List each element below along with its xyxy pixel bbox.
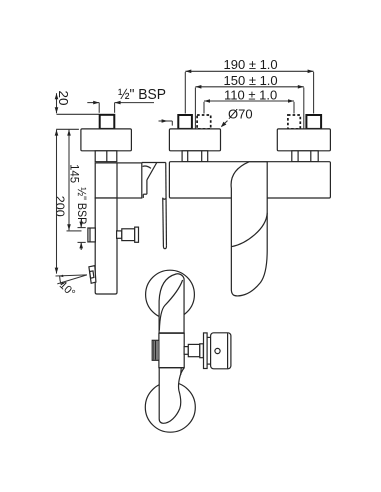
valve block (bottom view) — [159, 333, 184, 367]
handle collar (bottom view) — [204, 333, 208, 369]
label 1/2 BSP top with nut dimension — [87, 87, 166, 113]
mixer body bar (front) — [169, 162, 330, 198]
dimension 150 +/- 1.0 — [195, 73, 303, 129]
dimension 145 — [67, 130, 82, 231]
blade notch — [163, 198, 166, 201]
wall flange left (front) — [169, 129, 220, 151]
body interior line (tube edge continuation) — [116, 163, 118, 198]
svg-text:½" BSP: ½" BSP — [118, 87, 166, 103]
dimension 110 +/- 1.0 — [204, 87, 294, 113]
svg-text:200: 200 — [53, 196, 67, 217]
inlet nut (side) — [100, 115, 115, 129]
blade inner curve upper — [159, 280, 182, 331]
wall flange (side) — [81, 129, 131, 151]
diverter knob (bottom view) — [184, 344, 203, 358]
shower outlet nub (side left) — [88, 228, 95, 242]
outlet end threaded (bottom view left) — [152, 340, 159, 360]
inlet nut right dashed — [288, 115, 300, 129]
svg-text:Ø70: Ø70 — [228, 106, 253, 121]
wall flange circle top — [146, 270, 195, 319]
wall flange right (front) — [277, 129, 330, 151]
label O70 with leader — [221, 106, 253, 127]
body blade lower (bottom view) — [159, 368, 184, 424]
inlet nut right solid — [306, 115, 321, 129]
svg-text:½" BSP: ½" BSP — [75, 187, 89, 224]
svg-text:110 ± 1.0: 110 ± 1.0 — [224, 87, 277, 102]
wall flange circle bottom — [145, 382, 195, 432]
svg-text:150 ± 1.0: 150 ± 1.0 — [224, 73, 278, 88]
valve body (side) — [95, 163, 142, 198]
hex connector right — [292, 151, 318, 162]
top extension line for 145/200 — [56, 128, 79, 130]
handle cap details (side) — [142, 163, 166, 198]
inlet nut left dashed — [197, 115, 211, 129]
hex connector left — [182, 151, 208, 162]
waterfall spout (front) — [231, 162, 267, 296]
blade inner line lower — [180, 368, 183, 375]
angle dimension 10 deg — [56, 275, 87, 300]
dimension 200 — [53, 130, 67, 274]
svg-text:145: 145 — [68, 164, 82, 183]
leader arrow at left flange — [159, 119, 173, 125]
hex neck (side) — [95, 151, 117, 162]
svg-text:20: 20 — [56, 91, 71, 106]
handle bridges — [207, 336, 210, 338]
svg-text:190 ± 1.0: 190 ± 1.0 — [224, 57, 278, 72]
diverter knob (side right) — [117, 227, 139, 242]
down tube (side) — [95, 198, 117, 294]
inlet nut left solid — [178, 115, 192, 129]
dimension 20 — [55, 91, 100, 115]
dimension 190 +/- 1.0 — [185, 57, 313, 114]
handle grip (bottom view) — [211, 333, 231, 369]
body blade upper (bottom view) — [159, 274, 184, 333]
lever blade (side) — [163, 163, 167, 249]
label 1/2 BSP side outlet — [75, 187, 89, 250]
spout lip curve — [231, 213, 267, 247]
bottom outlet tilted 10deg — [89, 266, 96, 284]
